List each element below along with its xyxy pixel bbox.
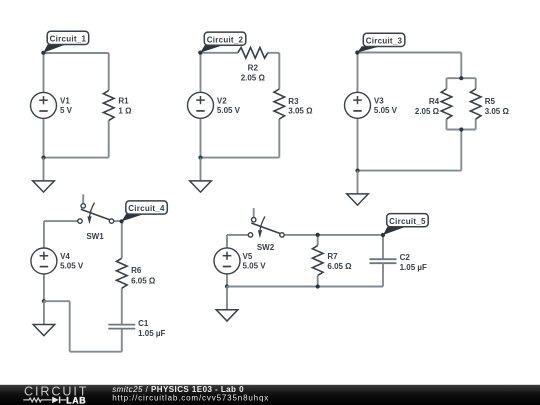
svg-text:5 V: 5 V — [60, 106, 73, 115]
svg-text:V1: V1 — [60, 96, 70, 105]
svg-text:R2: R2 — [248, 64, 259, 73]
svg-text:5.05 V: 5.05 V — [60, 262, 84, 271]
svg-text:C2: C2 — [400, 253, 411, 262]
svg-text:Circuit_5: Circuit_5 — [389, 217, 426, 226]
svg-text:Circuit_3: Circuit_3 — [366, 37, 403, 46]
svg-text:R4: R4 — [429, 97, 440, 106]
svg-text:http://circuitlab.com/cvv5735n: http://circuitlab.com/cvv5735n8uhqx — [112, 393, 269, 402]
svg-text:3.05 Ω: 3.05 Ω — [485, 107, 510, 116]
svg-text:V4: V4 — [60, 252, 70, 261]
svg-text:6.05 Ω: 6.05 Ω — [131, 276, 156, 285]
svg-text:SW1: SW1 — [86, 232, 104, 241]
svg-text:R6: R6 — [131, 266, 142, 275]
svg-text:SW2: SW2 — [257, 243, 275, 252]
svg-text:2.05 Ω: 2.05 Ω — [241, 73, 266, 82]
svg-text:LAB: LAB — [66, 395, 86, 405]
svg-text:V2: V2 — [217, 96, 227, 105]
svg-text:R1: R1 — [118, 97, 129, 106]
svg-text:Circuit_4: Circuit_4 — [128, 204, 165, 213]
svg-text:Circuit_2: Circuit_2 — [207, 35, 244, 44]
svg-text:5.05 V: 5.05 V — [243, 262, 267, 271]
svg-text:1.05 µF: 1.05 µF — [138, 329, 165, 338]
svg-text:1.05 µF: 1.05 µF — [400, 263, 427, 272]
svg-text:5.05 V: 5.05 V — [217, 106, 241, 115]
svg-text:6.05 Ω: 6.05 Ω — [327, 262, 352, 271]
svg-text:R7: R7 — [327, 252, 338, 261]
svg-text:R5: R5 — [485, 97, 496, 106]
svg-text:3.05 Ω: 3.05 Ω — [288, 107, 313, 116]
svg-text:5.05 V: 5.05 V — [374, 106, 398, 115]
svg-text:C1: C1 — [138, 319, 149, 328]
svg-text:2.05 Ω: 2.05 Ω — [415, 107, 440, 116]
svg-text:R3: R3 — [288, 97, 299, 106]
svg-text:Circuit_1: Circuit_1 — [50, 35, 87, 44]
svg-text:V3: V3 — [374, 96, 384, 105]
svg-text:V5: V5 — [243, 252, 253, 261]
svg-text:1 Ω: 1 Ω — [118, 107, 132, 116]
